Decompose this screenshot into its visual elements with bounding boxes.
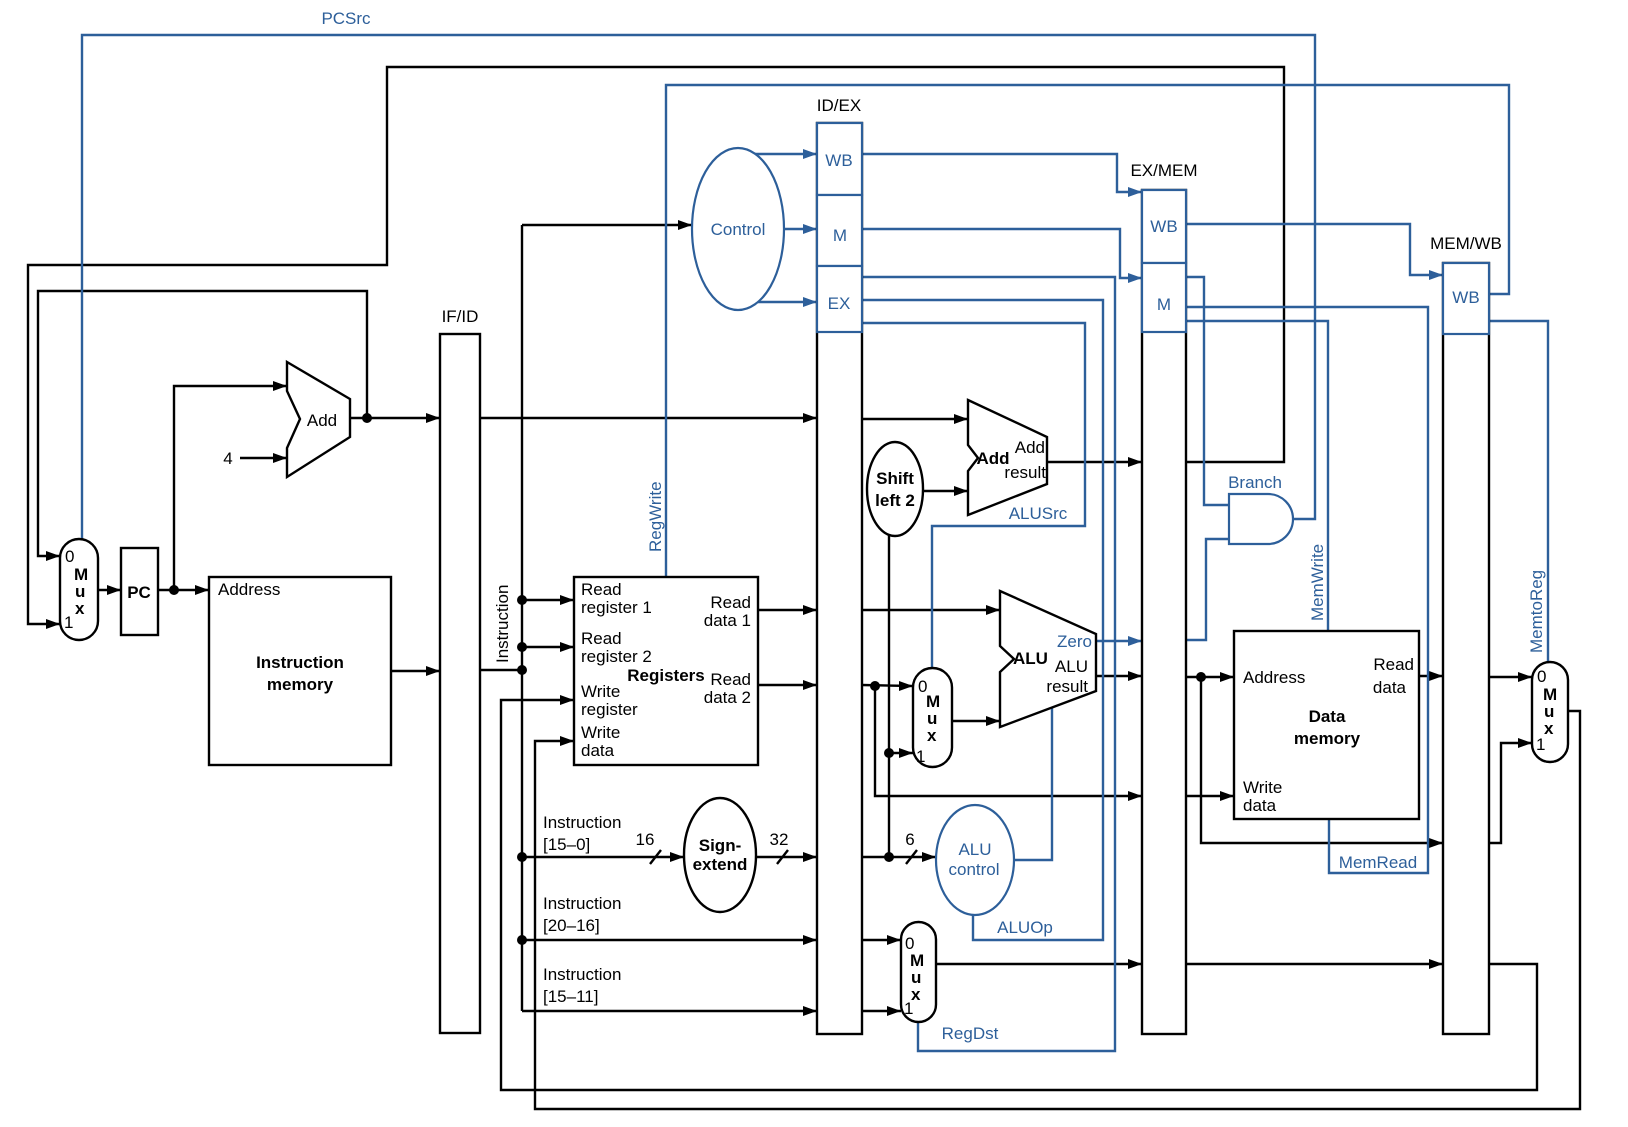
svg-text:RegDst: RegDst	[942, 1024, 999, 1043]
svg-text:Read: Read	[710, 670, 751, 689]
svg-text:WB: WB	[1452, 288, 1479, 307]
svg-text:PC: PC	[127, 583, 151, 602]
svg-text:Write: Write	[581, 723, 620, 742]
svg-text:Instruction: Instruction	[256, 653, 344, 672]
svg-text:MEM/WB: MEM/WB	[1430, 234, 1502, 253]
svg-text:result: result	[1004, 463, 1046, 482]
svg-text:ID/EX: ID/EX	[817, 96, 861, 115]
svg-text:MemWrite: MemWrite	[1308, 544, 1327, 621]
svg-text:Read: Read	[1373, 655, 1414, 674]
svg-text:32: 32	[770, 830, 789, 849]
svg-text:control: control	[948, 860, 999, 879]
svg-text:1: 1	[916, 747, 925, 766]
svg-text:16: 16	[636, 830, 655, 849]
svg-text:0: 0	[1537, 667, 1546, 686]
svg-text:Address: Address	[218, 580, 280, 599]
svg-text:register 2: register 2	[581, 647, 652, 666]
svg-text:[20–16]: [20–16]	[543, 916, 600, 935]
svg-text:Instruction: Instruction	[543, 813, 621, 832]
svg-text:ALU: ALU	[1013, 649, 1048, 668]
svg-text:Add: Add	[1015, 438, 1045, 457]
svg-text:MemtoReg: MemtoReg	[1527, 570, 1546, 653]
svg-text:[15–11]: [15–11]	[543, 987, 598, 1006]
svg-text:1: 1	[904, 999, 913, 1018]
svg-text:result: result	[1046, 677, 1088, 696]
svg-text:Write: Write	[1243, 778, 1282, 797]
svg-text:register 1: register 1	[581, 598, 652, 617]
svg-text:Read: Read	[710, 593, 751, 612]
svg-text:WB: WB	[1150, 217, 1177, 236]
svg-text:1: 1	[64, 613, 73, 632]
svg-text:data 2: data 2	[704, 688, 751, 707]
svg-text:memory: memory	[267, 675, 334, 694]
svg-text:ALU: ALU	[958, 840, 991, 859]
svg-text:memory: memory	[1294, 729, 1361, 748]
svg-text:0: 0	[65, 547, 74, 566]
svg-text:Registers: Registers	[627, 666, 704, 685]
svg-text:Write: Write	[581, 682, 620, 701]
svg-text:1: 1	[1536, 735, 1545, 754]
svg-text:6: 6	[905, 830, 914, 849]
svg-text:x: x	[75, 599, 85, 618]
svg-text:data 1: data 1	[704, 611, 751, 630]
svg-text:Add: Add	[307, 411, 337, 430]
svg-text:WB: WB	[825, 151, 852, 170]
svg-text:Zero: Zero	[1057, 632, 1092, 651]
svg-text:data: data	[1373, 678, 1407, 697]
svg-text:data: data	[1243, 796, 1277, 815]
svg-text:Read: Read	[581, 629, 622, 648]
svg-text:Instruction: Instruction	[543, 965, 621, 984]
svg-text:Sign-: Sign-	[699, 836, 742, 855]
svg-text:ALUSrc: ALUSrc	[1009, 504, 1068, 523]
svg-text:PCSrc: PCSrc	[321, 9, 371, 28]
svg-text:EX/MEM: EX/MEM	[1130, 161, 1197, 180]
svg-text:Read: Read	[581, 580, 622, 599]
svg-text:x: x	[1544, 719, 1554, 738]
svg-text:MemRead: MemRead	[1339, 853, 1417, 872]
svg-text:[15–0]: [15–0]	[543, 835, 590, 854]
svg-text:x: x	[927, 726, 937, 745]
svg-text:M: M	[833, 226, 847, 245]
svg-text:Shift: Shift	[876, 469, 914, 488]
svg-text:RegWrite: RegWrite	[646, 481, 665, 552]
svg-text:Data: Data	[1309, 707, 1346, 726]
svg-text:register: register	[581, 700, 638, 719]
svg-text:Address: Address	[1243, 668, 1305, 687]
svg-text:Instruction: Instruction	[493, 585, 512, 663]
svg-text:M: M	[1157, 295, 1171, 314]
svg-text:4: 4	[223, 449, 232, 468]
svg-text:EX: EX	[828, 294, 851, 313]
svg-text:extend: extend	[693, 855, 748, 874]
svg-text:IF/ID: IF/ID	[442, 307, 479, 326]
svg-text:left 2: left 2	[875, 491, 915, 510]
svg-text:ALU: ALU	[1055, 657, 1088, 676]
svg-text:Instruction: Instruction	[543, 894, 621, 913]
svg-text:ALUOp: ALUOp	[997, 918, 1053, 937]
svg-text:Branch: Branch	[1228, 473, 1282, 492]
svg-text:data: data	[581, 741, 615, 760]
svg-text:Control: Control	[711, 220, 766, 239]
